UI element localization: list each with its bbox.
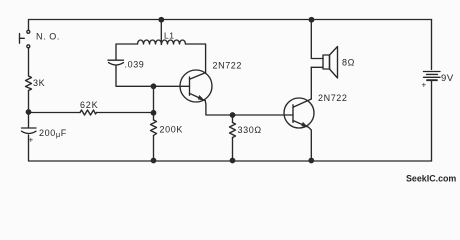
node D junction dot <box>230 113 234 117</box>
node speaker junction dot top rail <box>309 18 313 22</box>
svg-text:62K: 62K <box>80 100 98 110</box>
speaker SP1 <box>323 47 338 79</box>
wire tank top right to Q1 collector <box>186 44 206 73</box>
wire L1 center tap <box>160 20 162 45</box>
wire switch to 3K <box>28 48 30 76</box>
resistor R3 200K <box>151 120 157 136</box>
wire Q1 emitter to node D <box>205 101 232 115</box>
wire speaker bottom lead <box>311 66 323 68</box>
node B junction dot <box>151 111 155 115</box>
capacitor C2 .039 plates <box>108 60 124 65</box>
node junction dot bottom rail R4 <box>230 158 234 162</box>
wire 3K to node A <box>28 91 30 128</box>
node L1 tap junction dot <box>159 18 163 22</box>
svg-text:+: + <box>422 81 427 90</box>
wire 62K net right <box>97 112 154 114</box>
svg-text:200μF: 200μF <box>39 128 67 139</box>
svg-text:2N722: 2N722 <box>213 61 243 71</box>
wire battery top lead <box>431 20 433 70</box>
svg-text:.039: .039 <box>125 60 145 70</box>
wire node B to node C <box>153 86 155 120</box>
resistor R2 62K <box>80 110 97 115</box>
wire node D to Q2 base <box>233 114 294 116</box>
inductor L1 coil <box>138 40 186 44</box>
switch S1 N.O. pushbutton contacts <box>20 30 30 48</box>
wire R4 leads <box>232 115 234 123</box>
resistor R4 330ohm <box>230 123 236 138</box>
wire Q1 base lead <box>154 85 190 87</box>
battery B1 plates <box>424 72 441 81</box>
node C junction dot <box>151 84 155 88</box>
svg-text:SeekIC.com: SeekIC.com <box>406 173 456 183</box>
svg-text:9V: 9V <box>441 73 454 84</box>
wire tank top left <box>116 44 138 60</box>
wire 62K net left <box>29 112 81 114</box>
svg-text:3K: 3K <box>33 78 45 88</box>
transistor Q2 2N722 <box>284 98 314 128</box>
svg-text:L1: L1 <box>164 31 174 41</box>
transistor Q1 2N722 <box>180 70 212 102</box>
wire Q2 emitter to bottom rail <box>309 127 312 161</box>
wire Q2 collector to speaker <box>310 67 312 99</box>
wire tank bottom to node C <box>116 66 154 87</box>
node junction dot bottom rail R3 <box>151 158 155 162</box>
resistor R1 3K <box>26 76 32 91</box>
wire top rail <box>29 20 432 31</box>
svg-text:330Ω: 330Ω <box>238 125 262 135</box>
capacitor C1 200uF plates <box>22 128 37 134</box>
wire 200K to bottom rail <box>153 136 155 162</box>
wire battery bottom lead <box>431 81 433 161</box>
node A junction dot <box>26 110 30 114</box>
svg-text:+: + <box>29 136 34 145</box>
node junction dot bottom rail Q2 <box>309 158 313 162</box>
wire bottom rail <box>29 135 432 161</box>
svg-text:2N722: 2N722 <box>318 93 348 103</box>
svg-text:8Ω: 8Ω <box>342 58 355 68</box>
wire speaker top lead <box>311 20 323 59</box>
svg-text:N. O.: N. O. <box>36 32 60 42</box>
svg-text:200K: 200K <box>160 125 183 135</box>
